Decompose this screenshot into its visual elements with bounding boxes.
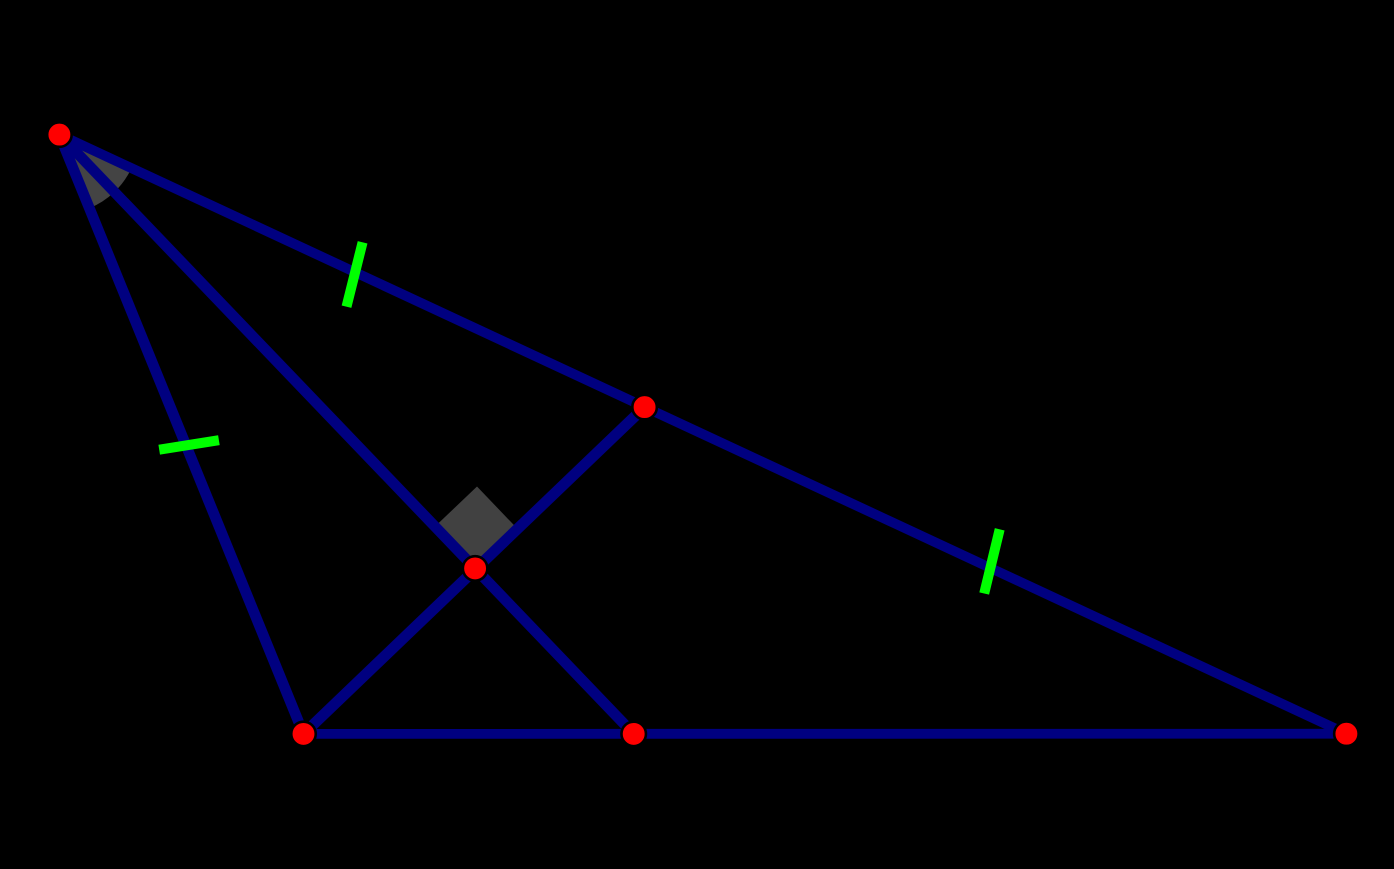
- side BC: [304, 729, 1347, 739]
- point A: [47, 122, 72, 147]
- point D on AC: [632, 395, 657, 420]
- side AC through point D: [59, 135, 1346, 734]
- right-angle marker (gray square) at P between cevians AE and BD: [435, 487, 517, 569]
- point B: [291, 722, 316, 747]
- point P (intersection of AE and BD): [463, 556, 488, 581]
- tick mark on segment AD: [347, 242, 363, 306]
- tick mark on segment DC: [984, 529, 1000, 593]
- side AB: [59, 135, 303, 734]
- median BD: [304, 407, 645, 734]
- tick mark on segment AB: [159, 440, 219, 450]
- angle bisector AE: [59, 135, 633, 734]
- point E on BC: [621, 722, 646, 747]
- angle marker at vertex A (gray sector of angle BAC): [59, 135, 131, 209]
- point C: [1334, 721, 1359, 746]
